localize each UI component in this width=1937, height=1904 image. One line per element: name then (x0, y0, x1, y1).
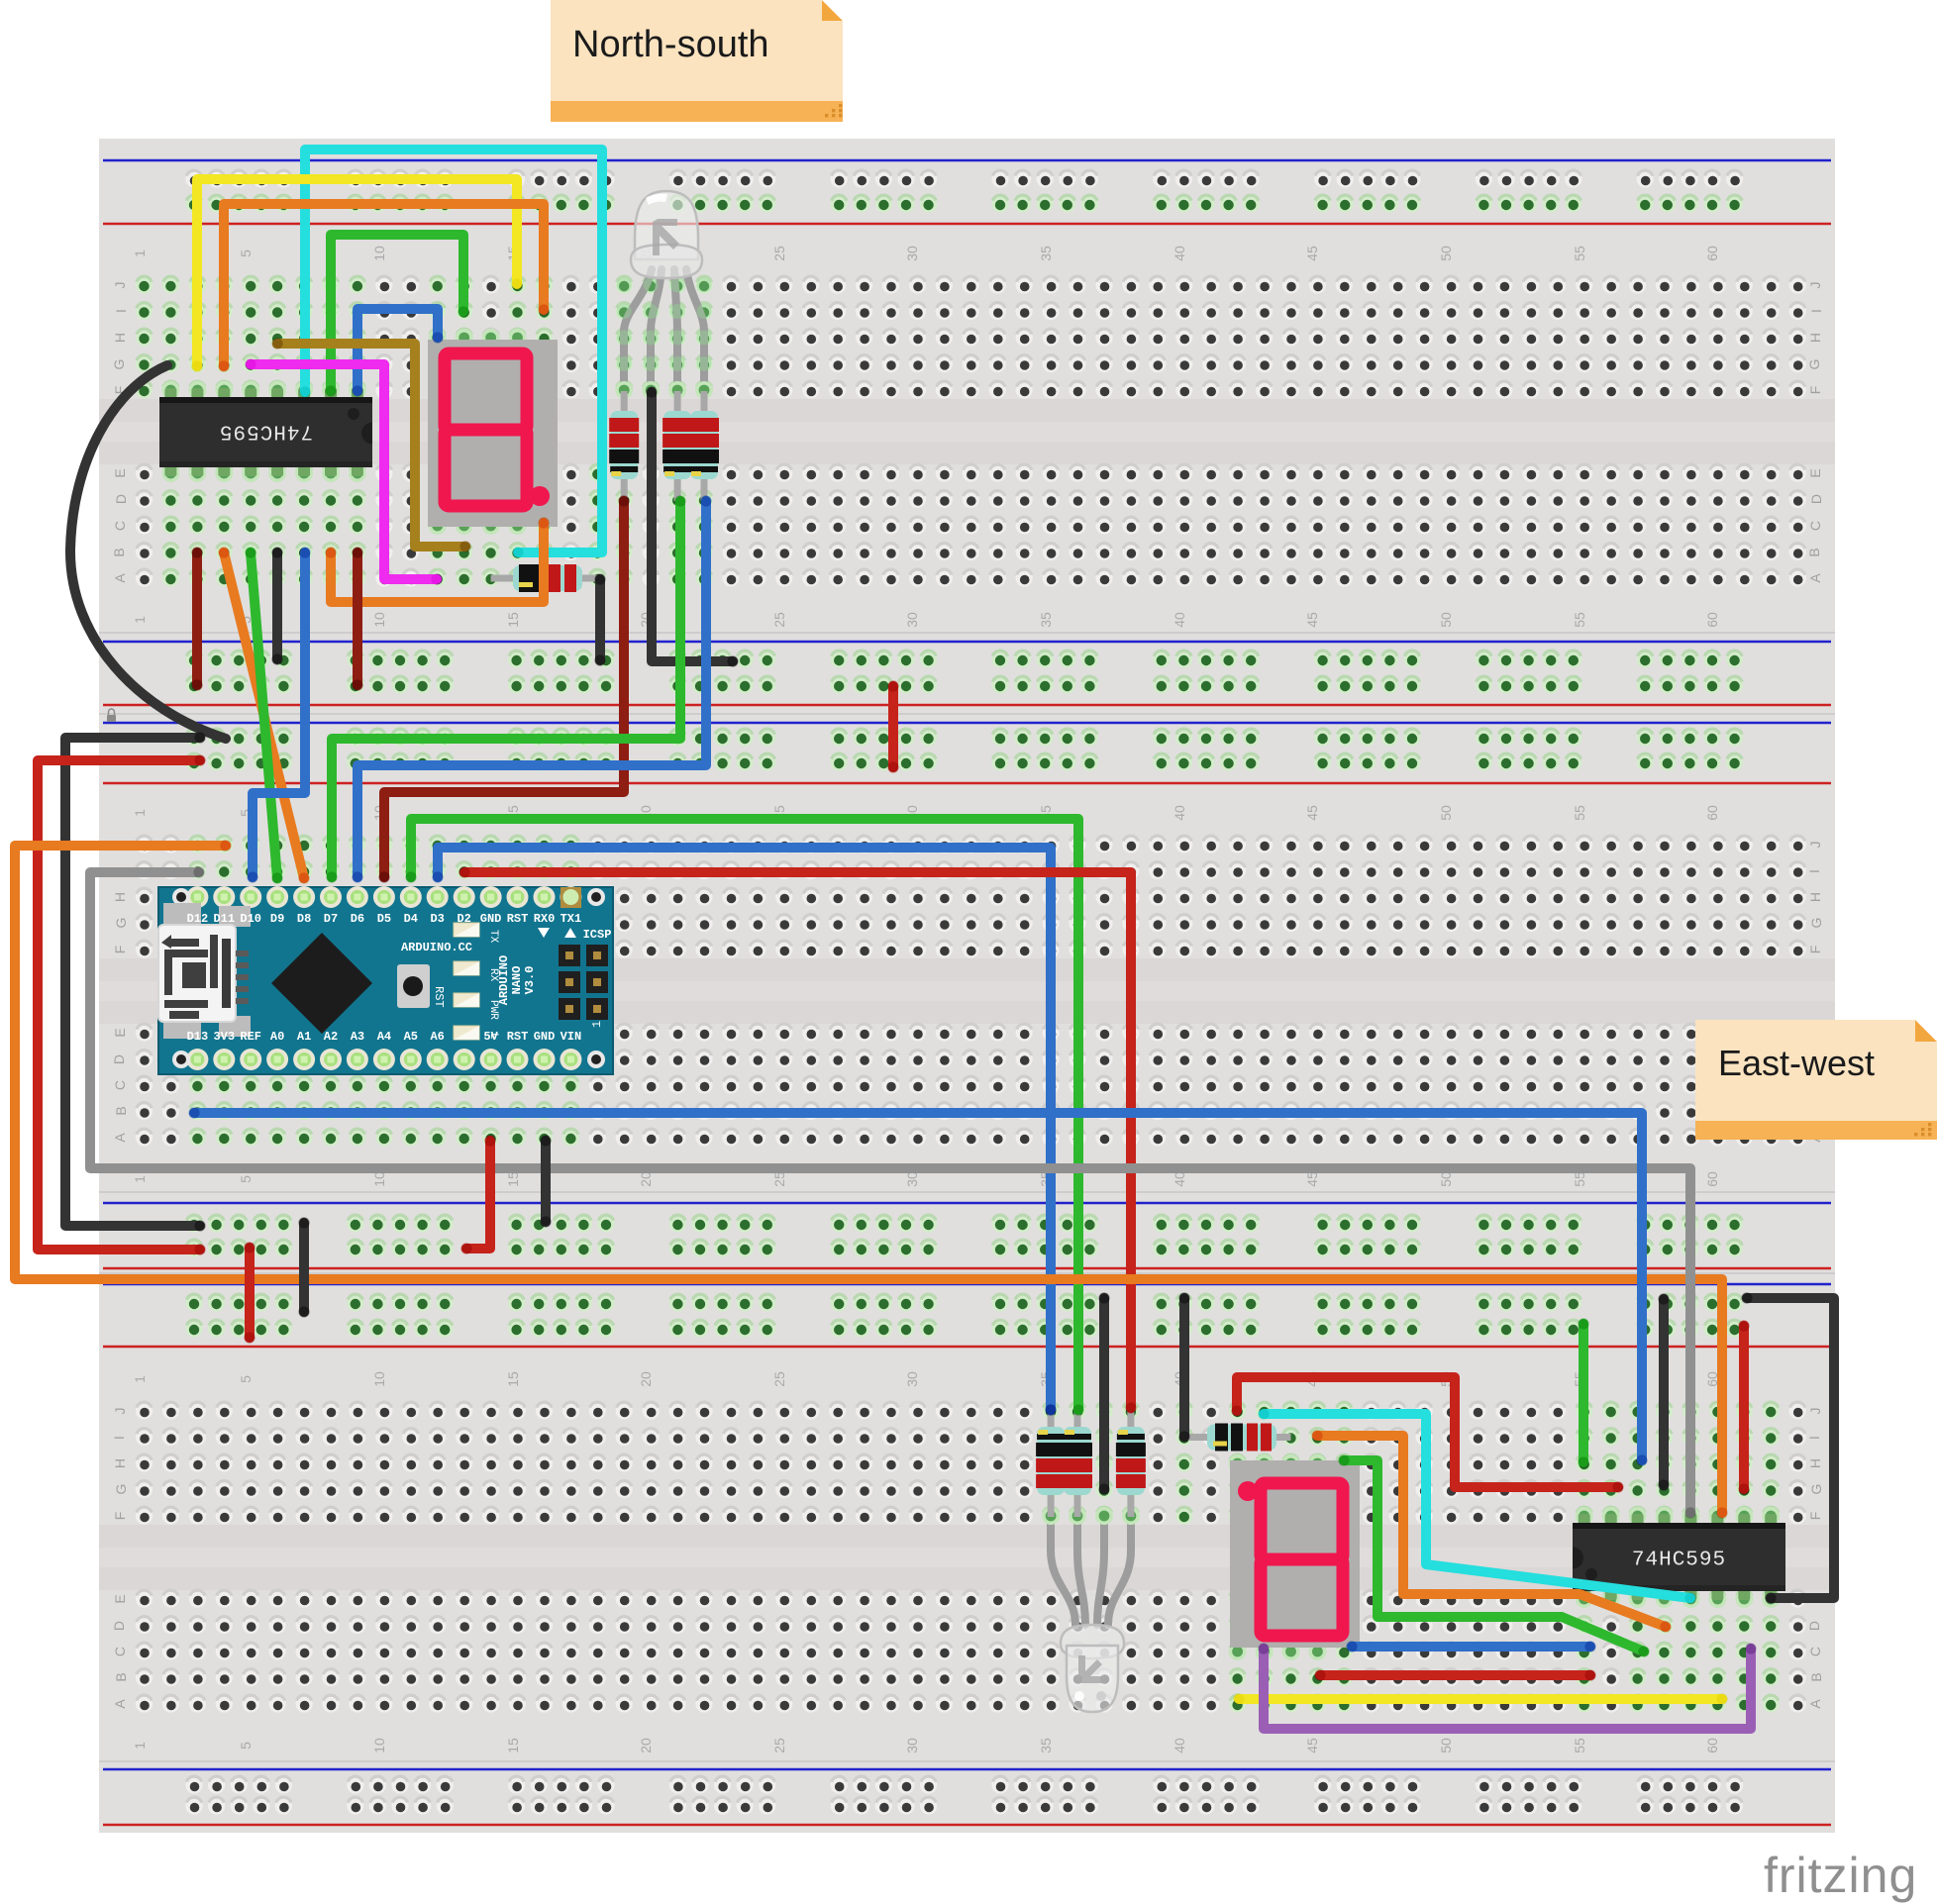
svg-text:55: 55 (1572, 1738, 1587, 1754)
svg-text:5: 5 (238, 1742, 254, 1750)
svg-text:F: F (1807, 1512, 1823, 1521)
svg-text:15: 15 (505, 1371, 521, 1387)
svg-text:GND: GND (534, 1030, 556, 1044)
svg-text:D10: D10 (240, 912, 261, 926)
svg-text:C: C (112, 1080, 128, 1090)
svg-text:D: D (1806, 1621, 1822, 1631)
svg-text:45: 45 (1304, 612, 1320, 628)
svg-text:55: 55 (1572, 1171, 1587, 1187)
wire W39 green (1344, 1460, 1644, 1652)
svg-text:50: 50 (1438, 1171, 1454, 1187)
svg-text:D11: D11 (213, 912, 235, 926)
svg-text:60: 60 (1704, 612, 1720, 628)
svg-text:G: G (1806, 359, 1822, 370)
svg-text:40: 40 (1172, 805, 1187, 821)
svg-text:D: D (111, 1054, 127, 1064)
svg-text:A4: A4 (377, 1030, 391, 1044)
wire W2 yellow (197, 179, 517, 366)
wire W31 black (541, 1141, 551, 1222)
wire W34 black (1099, 1298, 1109, 1489)
svg-text:G: G (113, 1484, 129, 1495)
svg-text:50: 50 (1438, 1738, 1454, 1754)
7-segment display DS1 pins (429, 329, 447, 347)
svg-text:H: H (1807, 892, 1823, 902)
svg-text:35: 35 (1038, 246, 1054, 261)
svg-text:J: J (1807, 1408, 1823, 1415)
svg-text:J: J (112, 282, 128, 289)
wire W30 red (466, 1141, 490, 1249)
svg-text:B: B (113, 1672, 129, 1681)
svg-text:I: I (1806, 1436, 1822, 1440)
wire W23 red long (464, 872, 1131, 1408)
svg-text:45: 45 (1304, 246, 1320, 261)
RGB LED LED2 body (1061, 1625, 1124, 1712)
svg-text:25: 25 (771, 1371, 787, 1387)
svg-text:35: 35 (1038, 612, 1054, 628)
svg-text:B: B (1808, 1672, 1824, 1681)
wire W36 red (1237, 1377, 1618, 1487)
svg-text:25: 25 (771, 1738, 787, 1754)
svg-text:20: 20 (638, 1371, 654, 1387)
svg-text:H: H (112, 892, 128, 902)
svg-text:D: D (113, 494, 129, 504)
svg-text:1: 1 (590, 1021, 604, 1028)
svg-text:GND: GND (480, 912, 502, 926)
svg-text:D4: D4 (404, 912, 418, 926)
svg-text:A: A (1807, 1699, 1823, 1709)
wire W12 dark red (353, 552, 362, 685)
resistor R6 220 (1063, 1407, 1092, 1517)
svg-text:L: L (487, 1033, 499, 1040)
lock icon (107, 709, 116, 722)
svg-text:1: 1 (132, 616, 148, 624)
svg-text:RX0: RX0 (534, 912, 556, 926)
svg-text:D: D (111, 1621, 127, 1631)
svg-text:A: A (112, 1699, 128, 1709)
svg-text:F: F (1807, 386, 1823, 395)
svg-text:VIN: VIN (561, 1030, 582, 1044)
svg-text:D12: D12 (187, 912, 209, 926)
wire W29 blue long (194, 1113, 1642, 1460)
svg-text:H: H (1807, 1458, 1823, 1468)
svg-text:20: 20 (638, 1738, 654, 1754)
svg-text:25: 25 (771, 612, 787, 628)
resistor R7 220 (1116, 1407, 1146, 1517)
svg-text:J: J (112, 1408, 128, 1415)
svg-text:A: A (112, 573, 128, 583)
svg-text:A6: A6 (430, 1030, 444, 1044)
svg-text:F: F (1807, 946, 1823, 954)
svg-text:1: 1 (132, 1175, 148, 1183)
wire W21 green long (411, 819, 1078, 1410)
svg-text:60: 60 (1704, 246, 1720, 261)
svg-text:C: C (1807, 521, 1823, 531)
svg-text:D6: D6 (351, 912, 364, 926)
svg-text:B: B (113, 1106, 129, 1115)
svg-text:A0: A0 (270, 1030, 284, 1044)
svg-text:5: 5 (238, 1375, 254, 1383)
RGB LED LED1 body (631, 191, 702, 278)
wire W28 grey long (90, 872, 1690, 1513)
svg-text:East-west: East-west (1718, 1043, 1875, 1083)
svg-text:B: B (1806, 548, 1822, 556)
wire W40 blue (1352, 1642, 1590, 1652)
svg-text:C: C (112, 521, 128, 531)
svg-text:40: 40 (1172, 612, 1187, 628)
svg-text:ARDUINO: ARDUINO (497, 955, 511, 1005)
wire W25 black (65, 738, 200, 1226)
svg-text:North-south: North-south (572, 24, 769, 65)
svg-text:35: 35 (1038, 1738, 1054, 1754)
wire W42 yellow (1239, 1694, 1722, 1704)
IC U2 74HC595 (1573, 1507, 1785, 1608)
wire W7 magenta (251, 364, 437, 579)
svg-text:RST: RST (507, 1030, 529, 1044)
svg-text:D7: D7 (324, 912, 338, 926)
wire W47 black (1747, 1298, 1834, 1598)
svg-text:55: 55 (1572, 246, 1587, 261)
wire W14 black (652, 392, 733, 661)
svg-text:30: 30 (904, 1371, 920, 1387)
wire W45 red (1739, 1326, 1749, 1489)
svg-text:55: 55 (1572, 612, 1587, 628)
svg-text:A5: A5 (404, 1030, 418, 1044)
svg-text:50: 50 (1438, 246, 1454, 261)
svg-text:5: 5 (238, 1175, 254, 1183)
svg-text:ICSP: ICSP (583, 928, 612, 942)
svg-text:1: 1 (132, 250, 148, 257)
svg-text:D9: D9 (270, 912, 284, 926)
svg-text:I: I (111, 1436, 127, 1440)
svg-text:60: 60 (1704, 1738, 1720, 1754)
svg-text:30: 30 (904, 246, 920, 261)
wire W44 green (1579, 1324, 1588, 1462)
wire W15 orange diagonal (224, 552, 304, 878)
svg-text:A: A (112, 1133, 128, 1143)
svg-text:40: 40 (1172, 1171, 1187, 1187)
svg-text:B: B (111, 548, 127, 556)
svg-text:10: 10 (371, 612, 387, 628)
wire W41 red (1320, 1670, 1590, 1680)
svg-text:74HC595: 74HC595 (219, 420, 313, 443)
svg-text:10: 10 (371, 1738, 387, 1754)
svg-text:10: 10 (371, 1371, 387, 1387)
wire W11 dark red (192, 552, 202, 685)
wire W26 red (38, 760, 200, 1250)
svg-text:30: 30 (904, 612, 920, 628)
svg-text:30: 30 (904, 1171, 920, 1187)
7-segment display DS1 (428, 340, 558, 527)
svg-text:E: E (1807, 468, 1823, 477)
wire W18 dark red (384, 501, 624, 877)
svg-text:3V3: 3V3 (213, 1030, 235, 1044)
svg-text:F: F (112, 1512, 128, 1521)
svg-text:TX: TX (487, 930, 499, 944)
RGB LED LED1 legs (624, 269, 704, 390)
svg-text:I: I (113, 309, 129, 313)
svg-text:10: 10 (371, 1171, 387, 1187)
resistor R1 220 (609, 391, 639, 501)
svg-text:G: G (1808, 918, 1824, 929)
svg-text:D3: D3 (430, 912, 444, 926)
wire W8 black curved (70, 365, 226, 739)
svg-text:1: 1 (132, 1375, 148, 1383)
svg-text:I: I (1808, 309, 1824, 313)
wire W13 black (595, 579, 605, 660)
svg-text:RST: RST (432, 986, 446, 1008)
note East-west (1695, 1020, 1937, 1140)
wire W22 blue long (438, 848, 1051, 1410)
wire W17 blue (253, 552, 305, 877)
svg-text:20: 20 (638, 1171, 654, 1187)
svg-text:ARDUINO.CC: ARDUINO.CC (401, 941, 472, 954)
svg-text:15: 15 (505, 612, 521, 628)
wire W5 blue (357, 309, 438, 391)
wire W32 red (245, 1248, 255, 1338)
wire W3 orange (224, 204, 544, 366)
breadboard (99, 139, 1835, 1833)
resistor R5 220 (1036, 1407, 1066, 1517)
svg-text:F: F (112, 946, 128, 954)
svg-text:H: H (112, 333, 128, 343)
wire W6 brown (277, 344, 465, 547)
svg-text:25: 25 (771, 1171, 787, 1187)
svg-text:TX1: TX1 (561, 912, 582, 926)
svg-text:25: 25 (771, 246, 787, 261)
7-segment display DS2 pins (1229, 1454, 1247, 1472)
wire W43 purple (1264, 1649, 1751, 1729)
wire W27 orange long (15, 846, 1722, 1513)
IC U1 74HC595 (159, 381, 372, 482)
svg-text:NANO: NANO (510, 966, 524, 995)
svg-text:J: J (1807, 842, 1823, 849)
svg-text:60: 60 (1704, 805, 1720, 821)
Arduino Nano A1 (158, 886, 613, 1074)
wire W24 red jumper (888, 686, 898, 767)
svg-text:30: 30 (904, 1738, 920, 1754)
svg-text:D13: D13 (187, 1030, 209, 1044)
wire W4 green (331, 235, 463, 391)
svg-text:D5: D5 (377, 912, 391, 926)
svg-text:J: J (1807, 282, 1823, 289)
wire W37 cyan (1264, 1414, 1690, 1598)
wire W19 green (332, 501, 680, 877)
svg-text:40: 40 (1172, 246, 1187, 261)
svg-text:V3.0: V3.0 (523, 966, 537, 995)
wire W16 green diagonal (251, 552, 277, 878)
svg-text:E: E (112, 468, 128, 477)
svg-text:C: C (1807, 1647, 1823, 1656)
wire W1 cyan (305, 150, 602, 552)
wire W9 orange (331, 523, 544, 602)
svg-text:45: 45 (1304, 1171, 1320, 1187)
svg-text:74HC595: 74HC595 (1632, 1550, 1726, 1572)
svg-text:C: C (112, 1647, 128, 1656)
wire W35 black (1179, 1298, 1189, 1437)
svg-text:RST: RST (507, 912, 529, 926)
svg-text:10: 10 (371, 246, 387, 261)
svg-text:H: H (112, 1458, 128, 1468)
svg-text:1: 1 (132, 809, 148, 817)
svg-text:A3: A3 (351, 1030, 364, 1044)
svg-text:50: 50 (1438, 805, 1454, 821)
svg-text:A2: A2 (324, 1030, 338, 1044)
svg-text:fritzing: fritzing (1764, 1848, 1917, 1903)
svg-text:D8: D8 (297, 912, 311, 926)
svg-text:45: 45 (1304, 1738, 1320, 1754)
RGB LED LED2 legs (1051, 1516, 1131, 1625)
svg-text:G: G (1808, 1484, 1824, 1495)
svg-text:50: 50 (1438, 612, 1454, 628)
svg-text:15: 15 (505, 1738, 521, 1754)
svg-text:I: I (1806, 869, 1822, 873)
svg-text:E: E (112, 1028, 128, 1037)
svg-text:H: H (1807, 333, 1823, 343)
svg-text:G: G (113, 918, 129, 929)
resistor R3 220 (689, 391, 719, 501)
svg-text:5: 5 (238, 250, 254, 257)
svg-text:G: G (111, 359, 127, 370)
svg-text:15: 15 (505, 1171, 521, 1187)
wire W46 black (1659, 1299, 1669, 1485)
svg-text:A: A (1807, 573, 1823, 583)
svg-text:40: 40 (1172, 1738, 1187, 1754)
resistor R8 1k (1184, 1424, 1291, 1452)
svg-text:55: 55 (1572, 805, 1587, 821)
resistor R4 1k (491, 564, 598, 592)
wire W38 orange (1317, 1436, 1666, 1627)
svg-text:A1: A1 (297, 1030, 311, 1044)
svg-text:1: 1 (132, 1742, 148, 1750)
wire W33 black (299, 1223, 309, 1312)
svg-text:D: D (1808, 494, 1824, 504)
svg-text:REF: REF (240, 1030, 261, 1044)
svg-text:45: 45 (1304, 805, 1320, 821)
svg-text:E: E (112, 1594, 128, 1603)
wire W10 black (272, 552, 282, 659)
wire W20 blue (357, 501, 706, 877)
7-segment display DS2 (1230, 1460, 1360, 1648)
resistor R2 220 (663, 391, 692, 501)
svg-text:60: 60 (1704, 1171, 1720, 1187)
note North-south (551, 0, 843, 122)
